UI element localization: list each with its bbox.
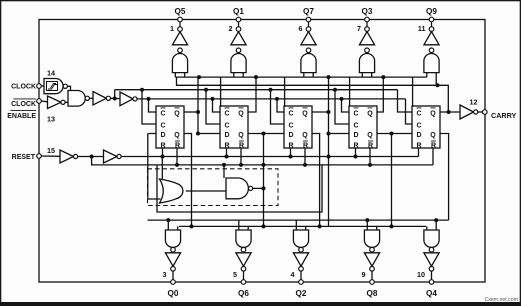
svg-text:C: C [353,110,358,117]
wire junction down to R-bar bus [92,157,96,165]
svg-text:C: C [224,122,229,129]
FF2 Q to FF3 D [248,132,284,136]
wire bus A to FF5 C-bar input [398,90,413,112]
pin number 3 [163,270,167,279]
NAND bubble [249,186,253,190]
input label CLOCK [11,84,36,91]
wire NAND to buffer1 [89,97,93,99]
wire inverter to terminal Q0 [172,271,174,280]
gate output bubble Q4 [429,247,434,252]
terminal Q0 pin 3 [171,280,176,285]
inverter bubble Q0 [171,267,176,272]
gate output bubble Q8 [370,247,375,252]
svg-text:D: D [288,132,293,139]
svg-text:CARRY: CARRY [491,111,516,120]
pin number 10 [417,270,425,279]
decode gate Q2 [293,230,308,247]
svg-text:6: 6 [299,24,303,33]
wire NAND output to drop [253,186,266,190]
gate output bubble Q9 [429,48,434,53]
pin number 11 [418,24,426,33]
output label CARRY [491,111,516,120]
svg-text:7: 7 [357,24,361,33]
svg-text:Q5: Q5 [175,7,186,16]
FF1 Qbar to decode riser [184,77,200,135]
svg-text:D: D [160,132,165,139]
wire bus B to FF4 C-bar input [340,97,350,112]
FF5 Q drop to bottom bus [440,134,449,221]
junction clock phase [113,97,117,101]
svg-text:5: 5 [233,270,237,279]
inverter bubble Q4 [429,267,434,272]
FF4 Qbar to decode riser [377,77,383,112]
inverter bubble Q9 [429,27,434,32]
gate input stubs Q8 [365,218,376,230]
output inverter Q3 [359,32,374,45]
FF4 Q to FF5 D [377,132,412,136]
terminal Q5 pin 1 [178,17,183,22]
pin number 9 [362,270,366,279]
gate input stubs Q2 [296,220,305,230]
terminal RESET pin 15 [37,154,42,159]
gate input stubs Q7 [304,73,313,78]
terminal Q7 pin 6 [306,17,311,22]
FF5 R-bar stub [432,148,434,165]
FF1 Q drop [184,134,194,229]
reset buffer bubble [117,154,121,158]
svg-text:Q0: Q0 [168,289,179,298]
FF3 Qbar to decode riser [312,77,331,226]
wire schmitt to NAND [67,86,70,90]
svg-text:C: C [288,122,293,129]
gate output bubble Q5 [178,48,183,53]
schmitt output bubble [63,84,67,88]
reset inverter [60,150,74,163]
schematic border box [39,20,485,283]
wire terminal to inverter Q7 [308,22,310,27]
R-bar bus [96,164,433,166]
wire to FF2 D [198,133,220,135]
terminal Q1 pin 2 [236,17,241,22]
clock buffer 2 [120,92,133,106]
flip-flop FF3 [284,106,312,150]
svg-text:Q: Q [302,110,308,117]
wire inverter to NAND [65,101,68,103]
flip-flop FF1 [156,106,184,150]
svg-text:CLOCK: CLOCK [11,84,36,91]
svg-text:Q: Q [367,110,373,117]
gate output bubble Q2 [299,247,304,252]
clock buffer 1 bubble [106,96,110,100]
wire terminal to inverter Q1 [238,22,240,27]
riser FF corner to decode bus [220,77,222,106]
svg-text:D: D [353,132,358,139]
svg-text:Q: Q [174,110,180,117]
terminal CLOCK ENABLE pin 13 [37,99,42,104]
wire to CARRY terminal [478,111,483,113]
wire to FF4 D [329,133,350,135]
svg-text:3: 3 [163,270,167,279]
NAND gate in gating block [226,178,248,199]
svg-text:14: 14 [47,69,55,78]
output label Q1 [233,7,244,16]
wire reset inverter to junction [78,155,104,159]
wire inverter to terminal Q6 [243,271,245,280]
wire R bus tap to OR gate [161,157,163,184]
svg-text:Q8: Q8 [367,289,378,298]
terminal Q6 pin 5 [241,280,246,285]
R bus [121,156,418,158]
riser FF corner to decode bus [412,77,414,106]
svg-text:11: 11 [418,24,426,33]
wire terminal to inverter Q5 [179,22,181,27]
bottom bus D [179,225,426,227]
svg-text:Q: Q [430,110,436,117]
FF2 R-bar stub [239,148,243,167]
svg-text:Q: Q [238,110,244,117]
decode gate Q9 [424,53,439,72]
wire buffer1 to buffer2 [111,97,121,99]
svg-text:Q1: Q1 [233,7,244,16]
gate input stubs Q1 [234,73,243,78]
wire bus B to FF5 C input [406,99,413,124]
output label Q7 [303,7,314,16]
svg-text:9: 9 [362,270,366,279]
output label Q4 [426,289,437,298]
gate input stubs Q9 [427,73,436,86]
output inverter Q8 [364,253,379,266]
clock buffer 1 [93,92,106,106]
OR gate in gating block [160,179,183,203]
wire NAND top input [222,163,226,178]
output label Q3 [362,7,373,16]
gate input stubs Q3 [362,73,371,78]
FF2 Qbar to decode riser [248,77,256,112]
riser FF corner to decode bus [284,77,286,106]
wire bus B to FF1 C-bar input [147,97,157,112]
output label Q8 [367,289,378,298]
FF1 R-bar stub [175,148,179,167]
bottom bus C [148,219,449,221]
svg-text:C: C [160,122,165,129]
clock bus A [115,89,398,91]
pin number 4 [291,270,295,279]
input label RESET [12,154,36,161]
svg-text:CLOCK: CLOCK [11,101,36,108]
svg-text:C: C [353,122,358,129]
gate input stubs Q4 [427,218,438,230]
clock NAND bubble [85,96,89,100]
decode gate Q3 [359,53,374,72]
decode gate Q4 [424,230,439,247]
wire FF5 Qbar to carry inverter [440,110,460,114]
wire CLOCK to schmitt [41,85,44,87]
svg-text:Q9: Q9 [426,7,437,16]
gate input stubs Q6 [239,220,248,230]
flip-flop FF5 [412,106,440,150]
inverter bubble Q1 [236,27,241,32]
gate output bubble Q0 [171,247,176,252]
output inverter Q0 [165,253,180,266]
wire terminal to inverter Q3 [366,22,368,27]
FF3 R-bar stub [303,148,307,167]
svg-text:Q: Q [367,132,373,139]
svg-text:Q2: Q2 [296,289,307,298]
FF5 R stub [418,148,420,157]
decode gate Q0 [165,230,180,247]
pin number 5 [233,270,237,279]
output inverter Q6 [236,253,251,266]
clock bus B [137,98,405,100]
decode gate Q7 [301,53,316,72]
output inverter Q4 [424,253,439,266]
pin number 13 [47,115,55,124]
carry feed bus [177,77,449,112]
decode gate Q8 [364,230,379,247]
svg-text:C: C [416,122,421,129]
svg-text:4: 4 [291,270,295,279]
pin number 6 [299,24,303,33]
FF4 R-bar stub [368,148,372,167]
output label Q5 [175,7,186,16]
inverter bubble Q2 [299,267,304,272]
inverter bubble Q6 [241,267,246,272]
pin number 12 [470,98,478,107]
output inverter Q7 [301,32,316,45]
gate output bubble Q7 [306,48,311,53]
svg-text:1: 1 [170,24,174,33]
FF4 R stub [354,148,358,159]
svg-text:RESET: RESET [12,154,36,161]
dashed box CD4022 variant [148,169,279,206]
svg-text:10: 10 [417,270,425,279]
wire bus A to FF2 C input [204,88,220,124]
svg-text:D: D [224,132,229,139]
solid box around gating [157,165,322,212]
wire bus B to FF2 C-bar input [211,97,221,112]
inverter bubble Q3 [365,27,370,32]
output inverter Q2 [293,253,308,266]
clock enable inverter [48,96,62,109]
svg-text:Q7: Q7 [303,7,314,16]
wire inverter to terminal Q2 [300,271,302,280]
output inverter Q1 [231,32,246,45]
output label Q6 [238,289,249,298]
inverter bubble Q7 [306,27,311,32]
svg-text:Q: Q [174,132,180,139]
svg-text:15: 15 [47,146,55,155]
decode gate Q6 [236,230,251,247]
wire bus A to FF4 C input [333,88,349,124]
flip-flop FF4 [349,106,377,150]
clock buffer 2 bubble [133,97,137,101]
inverter bubble Q5 [178,27,183,32]
gate input stubs Q5 [175,73,184,78]
input label CLOCK ENABLE [7,99,36,120]
svg-text:Q: Q [302,132,308,139]
reset buffer [104,150,118,163]
inverter bubble Q8 [370,267,375,272]
svg-text:D: D [416,132,421,139]
FF3 R stub [289,148,293,159]
FF3 Q drop [312,134,322,229]
gate output bubble Q6 [241,247,246,252]
terminal Q4 pin 10 [429,280,434,285]
svg-text:Q: Q [430,132,436,139]
decode gate Q5 [172,53,187,72]
terminal CLOCK pin 14 [37,84,42,89]
flip-flop FF2 [220,106,248,150]
output label Q9 [426,7,437,16]
top decode bus [175,75,426,79]
output inverter Q9 [424,32,439,45]
pin number 15 [47,146,55,155]
FF4 Q drop [390,134,394,229]
terminal Q2 pin 4 [299,280,304,285]
decode gate Q1 [231,54,246,73]
watermark text [485,297,518,303]
pin number 14 [47,69,55,78]
pin number 2 [229,24,233,33]
wire bus B to FF3 C-bar input [275,97,284,112]
carry inverter [460,105,474,119]
clock NAND gate [68,91,85,107]
terminal Q9 pin 11 [429,17,434,22]
svg-text:Cxem.net.com: Cxem.net.com [485,297,518,303]
schmitt trigger [44,79,63,94]
svg-text:ENABLE: ENABLE [7,113,36,120]
output inverter Q5 [172,32,187,45]
svg-text:12: 12 [470,98,478,107]
wire bus A to FF3 C input [269,88,285,124]
svg-text:2: 2 [229,24,233,33]
svg-text:13: 13 [47,115,55,124]
output label Q0 [168,289,179,298]
svg-text:Q: Q [238,132,244,139]
gate output bubble Q3 [365,48,370,53]
terminal CARRY pin 12 [483,110,488,115]
FF2 R stub [225,148,229,159]
svg-text:Q4: Q4 [426,289,437,298]
pin number 7 [357,24,361,33]
riser FF corner to decode bus [349,77,351,106]
gate input stubs Q0 [166,218,177,230]
wire junction up to bus A [114,90,116,99]
svg-text:C: C [160,110,165,117]
svg-text:Q6: Q6 [238,289,249,298]
wire terminal to inverter Q9 [431,22,433,27]
svg-text:C: C [224,110,229,117]
wire bus A to FF1 C input [140,88,156,124]
wire RESET to inverter [41,155,60,157]
terminal Q8 pin 9 [370,280,375,285]
FF1 R stub [161,148,165,159]
wire FF1 D feedback [148,134,161,200]
output label Q2 [296,289,307,298]
reset inverter bubble [74,154,78,158]
carry inverter bubble [474,110,478,114]
clock enable inverter bubble [61,100,65,104]
svg-text:Q3: Q3 [362,7,373,16]
svg-text:C: C [416,110,421,117]
svg-text:C: C [288,110,293,117]
pin number 1 [170,24,174,33]
wire OR output to NAND [186,190,226,192]
gate output bubble Q1 [236,48,241,53]
FF2 Q drop [262,134,266,229]
wire inverter to terminal Q4 [431,271,433,280]
wire inverter to terminal Q8 [371,271,373,280]
terminal Q3 pin 7 [365,17,370,22]
wire CLOCK ENABLE to inverter [41,100,47,103]
